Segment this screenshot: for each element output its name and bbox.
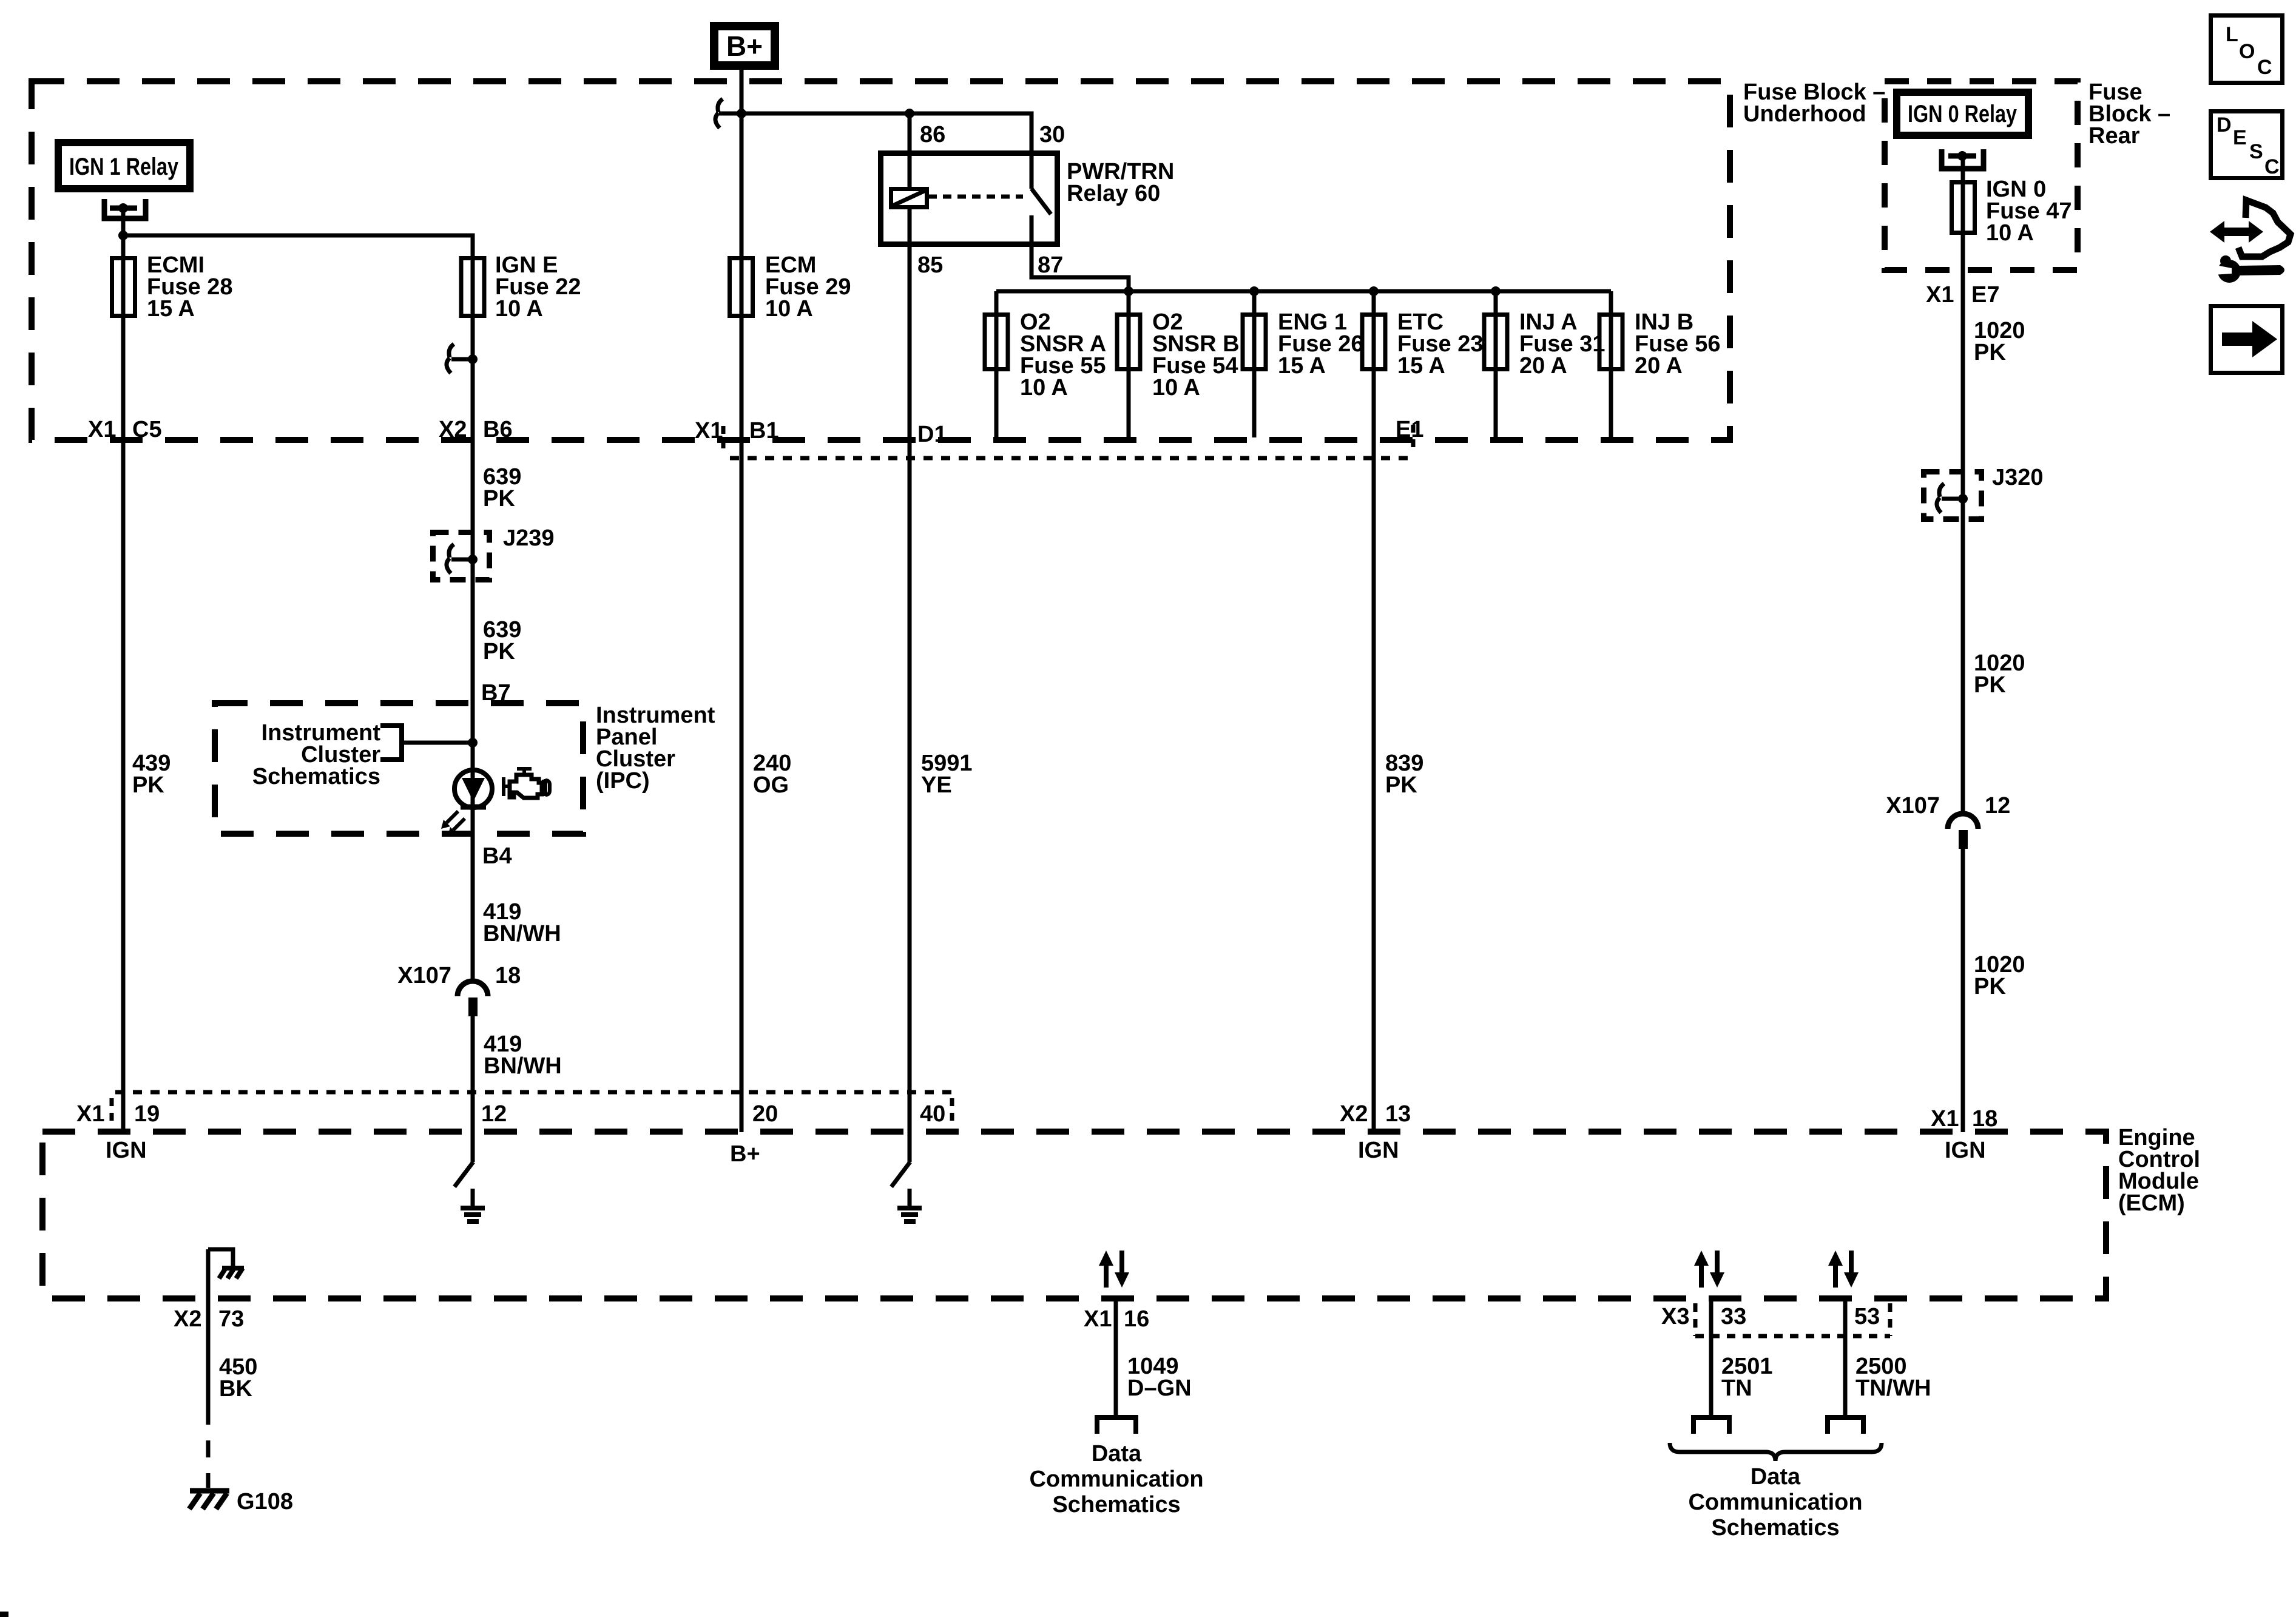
icon wrench [2213,255,2284,283]
svg-text:(IPC): (IPC) [596,768,650,794]
IGN 1 relay receptacle terminal [104,199,146,218]
svg-text:E7: E7 [1971,282,1999,308]
svg-text:B+: B+ [730,1141,760,1167]
svg-text:13: 13 [1385,1101,1411,1127]
svg-text:Communication: Communication [1688,1490,1862,1515]
svg-text:L: L [2226,23,2238,46]
icon LOC box [2211,16,2283,83]
engine control module dashed box [42,1132,2106,1298]
wire INJ A column [1494,291,1498,437]
pin 86 [920,122,945,147]
fuse ENG 1 Fuse 26 [1243,315,1266,370]
splice J239 [433,533,490,580]
node junction ENG1 [1249,286,1259,296]
brace data comm [1670,1443,1882,1461]
svg-text:IGN: IGN [1945,1138,1986,1163]
svg-text:PK: PK [132,772,164,798]
power B+ label box [714,26,775,66]
wire relay 85 down [908,208,912,1132]
wire label 439 PK [132,751,171,798]
svg-text:X1: X1 [88,417,116,442]
svg-text:10 A: 10 A [765,296,813,322]
svg-text:IGN: IGN [106,1138,147,1163]
wire ENG 1 column [1252,291,1257,437]
splice tap on IGN E wire [447,344,478,373]
svg-text:20 A: 20 A [1635,353,1683,379]
svg-text:PK: PK [483,639,515,664]
wire O2 SNSR A column [994,291,999,437]
wire label 419 BN/WH upper [483,899,561,947]
ground G108 [189,1491,229,1509]
svg-text:15 A: 15 A [1278,353,1326,379]
pin X2 B6 [439,417,513,442]
pin X1 19 [76,1101,160,1127]
node junction IGN1 feed [118,231,128,240]
svg-text:Underhood: Underhood [1743,101,1866,127]
svg-text:X2: X2 [1340,1101,1368,1127]
wire IGN1 feed to IGN E fuse [123,235,473,256]
svg-text:10 A: 10 A [1986,220,2034,246]
svg-text:O: O [2239,40,2255,63]
svg-text:33: 33 [1721,1304,1746,1329]
relay IGN 1 Relay label box [58,143,190,189]
wire label 450 BK [219,1354,257,1402]
node junction INJ A [1491,286,1501,296]
wire 419 below X107 [471,1016,475,1132]
pin D1 [917,422,947,447]
label Data Communication Schematics left [1029,1441,1203,1517]
wire ETC column [1372,291,1376,1132]
wire label 639 PK lower [483,617,521,664]
svg-text:73: 73 [218,1306,244,1332]
label Engine Control Module ECM [2118,1125,2200,1216]
wire label 240 OG [753,751,791,798]
ground ECM pin 12 [461,1189,485,1221]
svg-text:J239: J239 [503,525,555,551]
wire INJ B column [1609,291,1613,437]
svg-text:X1: X1 [1926,282,1954,308]
data arrows pin 33 [1694,1251,1724,1288]
fuse O2 SNSR A Fuse 55 [985,315,1008,370]
wire fuse bus [996,289,1611,294]
svg-text:PK: PK [1385,772,1417,798]
node junction B+ bus [737,109,746,118]
pin 53 [1854,1304,1880,1329]
wire label 1020 PK top [1974,318,2025,365]
svg-text:TN: TN [1721,1376,1752,1401]
terminator data comm 16 [1097,1417,1136,1434]
svg-text:Schematics: Schematics [1052,1492,1180,1517]
bracket instrument cluster [380,726,402,760]
svg-text:B6: B6 [483,417,513,442]
relay IGN 0 Relay label box [1897,92,2028,135]
svg-text:IGN 1 Relay: IGN 1 Relay [69,154,179,180]
svg-text:20: 20 [752,1101,778,1127]
svg-text:B4: B4 [482,843,512,869]
svg-text:40: 40 [920,1101,945,1127]
svg-text:10 A: 10 A [495,296,543,322]
node junction ETC [1369,286,1379,296]
svg-text:BN/WH: BN/WH [483,921,561,947]
wire relay pin 87 to fuse bus [1032,215,1129,291]
icon DESC box [2211,112,2283,178]
net IGN pin 13 [1358,1138,1399,1163]
svg-text:S: S [2249,140,2263,163]
label Instrument Panel Cluster [596,703,715,794]
svg-text:D1: D1 [917,422,947,447]
wire IGN E fuse column [471,256,475,981]
wire ECMI fuse column [121,256,126,1132]
wire label 2500 TN/WH [1855,1354,1931,1401]
pin 33 [1721,1304,1746,1329]
svg-text:C: C [2264,155,2280,178]
fuse block rear dashed box [1885,81,2078,270]
fuse block underhood dashed box [32,81,1730,440]
fuse IGN 0 Fuse 47 [1952,183,1975,233]
svg-text:86: 86 [920,122,945,147]
svg-text:X107: X107 [1886,793,1940,819]
pin 87 [1038,252,1063,278]
svg-text:X3: X3 [1661,1304,1689,1329]
wire label 1049 D-GN [1127,1354,1192,1401]
switch ECM pin 12 driver [454,1132,473,1187]
pin E1 [1396,417,1423,442]
svg-text:Relay 60: Relay 60 [1067,181,1160,206]
ground ECM pin 40 [897,1189,922,1221]
connector X1 ECM dotted row [112,1092,955,1124]
pin B7 [481,680,511,706]
svg-text:X1: X1 [695,418,723,444]
svg-text:Rear: Rear [2088,123,2140,149]
wire label 639 PK upper [483,464,521,511]
wire 1049 [1114,1298,1118,1416]
net IGN pin 18 [1945,1138,1986,1163]
connector X107 12 [1948,814,1978,849]
splice J320 [1924,472,1982,519]
relay actuation dashed link [928,195,1023,199]
wire 1020 below X107 [1961,849,1965,1132]
svg-text:10 A: 10 A [1020,375,1068,400]
pin X2 13 [1340,1101,1411,1127]
pin X1 16 [1084,1306,1149,1332]
svg-text:PK: PK [1974,340,2006,365]
svg-text:PK: PK [1974,974,2006,999]
svg-text:12: 12 [481,1101,507,1127]
node junction relay 86 [905,109,914,118]
ground ECM internal [208,1249,244,1278]
svg-text:16: 16 [1124,1306,1149,1332]
pin 12 [481,1101,507,1127]
svg-text:18: 18 [1972,1106,1997,1132]
pin 30 [1039,122,1065,147]
svg-text:X107: X107 [397,963,451,988]
svg-text:X1: X1 [1931,1106,1959,1132]
switch ECM pin 40 driver [891,1132,910,1187]
svg-text:BK: BK [219,1376,252,1402]
fuse IGN E Fuse 22 [461,258,484,316]
pin 85 [917,252,943,278]
svg-text:Schematics: Schematics [1711,1515,1839,1541]
svg-text:BN/WH: BN/WH [484,1053,562,1079]
label Data Communication Schematics right [1688,1464,1862,1541]
svg-text:TN/WH: TN/WH [1855,1376,1931,1401]
pin 20 [752,1101,778,1127]
data arrows pin 16 [1099,1251,1129,1288]
data arrows pin 53 [1828,1251,1859,1288]
pin X1 E7 [1926,282,1999,308]
fuse INJ A Fuse 31 [1484,315,1507,370]
svg-text:YE: YE [921,772,952,798]
svg-text:X1: X1 [1084,1306,1112,1332]
connector X3 dotted box [1695,1303,1890,1336]
svg-text:IGN 0 Relay: IGN 0 Relay [1908,101,2017,127]
svg-text:PK: PK [1974,672,2006,698]
IGN 0 relay receptacle terminal [1942,149,1984,169]
wire 2500 [1843,1298,1848,1416]
svg-text:OG: OG [753,772,789,798]
pin X1 B1 [695,418,779,444]
icon hand double arrow [2210,221,2263,243]
svg-text:Schematics: Schematics [252,764,380,789]
svg-text:X2: X2 [439,417,467,442]
wire label 1020 PK middle [1974,650,2025,698]
svg-text:C: C [2257,56,2272,79]
relay switch arm [1032,189,1051,214]
svg-text:E1: E1 [1396,417,1423,442]
node junction 87 feed [1124,286,1133,296]
LED emission arrows [441,811,465,836]
svg-text:Data: Data [1751,1464,1801,1490]
svg-text:J320: J320 [1992,465,2044,490]
page artifact dot [0,1612,8,1617]
svg-text:C5: C5 [132,417,162,442]
fuse O2 SNSR B Fuse 54 [1117,315,1140,370]
svg-text:X1: X1 [76,1101,104,1127]
instrument panel cluster dashed box [215,703,583,834]
wire 2501 [1709,1298,1714,1416]
wire label 5991 YE [921,751,973,798]
terminator data comm 53 [1828,1417,1863,1434]
svg-text:(ECM): (ECM) [2118,1190,2185,1216]
svg-text:19: 19 [134,1101,160,1127]
svg-text:X2: X2 [174,1306,201,1332]
svg-text:18: 18 [495,963,521,988]
svg-text:G108: G108 [237,1489,293,1514]
svg-text:B1: B1 [749,418,779,444]
relay PWR/TRN Relay 60 box [881,154,1058,245]
svg-text:D–GN: D–GN [1127,1376,1192,1401]
svg-text:30: 30 [1039,122,1065,147]
fuse ETC Fuse 23 [1362,315,1385,370]
wire relay coil feed [908,113,912,189]
svg-text:IGN: IGN [1358,1138,1399,1163]
net IGN pin 19 [106,1138,147,1163]
indicator LED MIL [454,770,492,808]
connector X1 underhood dotted row [723,425,1413,458]
wire label 1020 PK bottom [1974,952,2025,999]
fuse ECM Fuse 29 [730,258,753,316]
net B+ pin 20 [730,1141,760,1167]
svg-text:Communication: Communication [1029,1467,1203,1492]
icon hand outline [2238,200,2291,257]
svg-text:B+: B+ [726,30,763,62]
svg-text:E: E [2233,126,2247,149]
wire ECM ground 450 [206,1249,211,1408]
pin X3 [1661,1304,1689,1329]
svg-text:85: 85 [917,252,943,278]
svg-text:Data: Data [1092,1441,1142,1467]
svg-text:20 A: 20 A [1519,353,1567,379]
wire dashed to G108 [206,1408,211,1488]
svg-text:PK: PK [483,486,515,511]
label Fuse Block Rear [2088,79,2170,149]
svg-text:15 A: 15 A [147,296,195,322]
pin X1 18 [1931,1106,1997,1132]
svg-text:10 A: 10 A [1152,375,1200,400]
svg-text:15 A: 15 A [1397,353,1445,379]
splice hook on B+ feed [715,99,723,128]
pin X1 C5 [88,417,162,442]
terminator data comm 33 [1693,1417,1729,1434]
pin 40 [920,1101,945,1127]
label Fuse Block Underhood [1743,79,1885,127]
svg-text:87: 87 [1038,252,1063,278]
wire B+ horizontal bus to relay pin 30 [741,113,1032,189]
wire IGN 0 column [1961,156,1965,814]
wire cluster tap [402,741,473,745]
pin B4 [482,843,512,869]
wire B+ feed [740,66,744,1132]
fuse ECMI Fuse 28 [112,258,135,316]
icon arrow box [2211,306,2283,373]
wire O2 SNSR B column [1127,291,1131,437]
icon check engine [502,767,550,798]
node junction IPC tap [468,738,478,748]
fuse INJ B Fuse 56 [1599,315,1622,370]
wire label 839 PK [1385,751,1423,798]
wire IGN1 relay output [121,208,126,256]
svg-text:12: 12 [1985,793,2010,819]
svg-text:53: 53 [1854,1304,1880,1329]
relay coil [891,189,927,208]
pin X2 73 [174,1306,244,1332]
svg-text:D: D [2217,113,2232,137]
connector X107 18 [458,981,488,1016]
wire label 419 BN/WH lower [484,1031,562,1079]
label Instrument Cluster Schematics [252,720,381,789]
wire label 2501 TN [1721,1354,1773,1401]
